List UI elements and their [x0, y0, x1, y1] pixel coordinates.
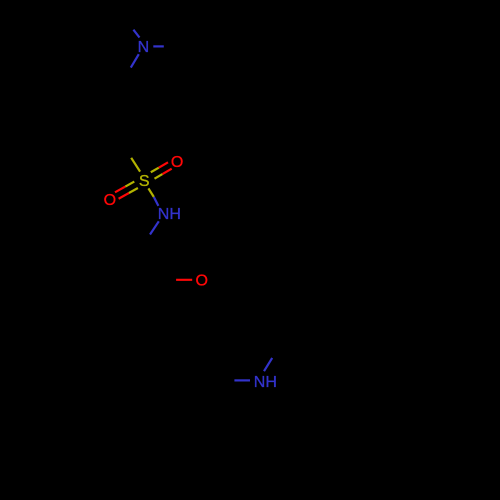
svg-text:O: O — [195, 273, 207, 290]
svg-text:NH: NH — [254, 374, 277, 391]
svg-text:NH: NH — [158, 206, 181, 223]
svg-text:O: O — [104, 192, 116, 209]
svg-text:S: S — [139, 173, 150, 190]
svg-text:N: N — [138, 39, 150, 56]
svg-text:O: O — [171, 154, 183, 171]
